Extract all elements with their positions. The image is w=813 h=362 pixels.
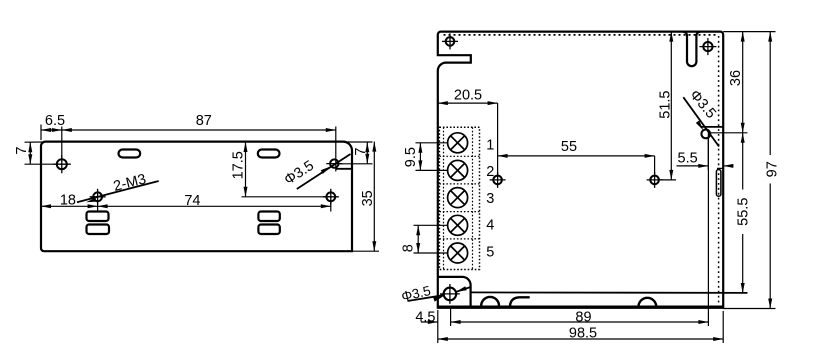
svg-text:2-M3: 2-M3 [112, 171, 148, 195]
svg-text:18: 18 [60, 193, 76, 209]
foot arc 1 [481, 297, 499, 306]
hole phi3.5 right [326, 159, 342, 167]
svg-text:55: 55 [561, 139, 577, 155]
svg-text:4.5: 4.5 [415, 310, 435, 326]
hole phi3.5 left [53, 155, 71, 173]
svg-text:Φ3.5: Φ3.5 [686, 87, 719, 122]
ear hole top-left [442, 33, 458, 49]
dim 7 right [339, 142, 373, 164]
dim 17.5 [242, 142, 331, 197]
leader phi3.5 bottom left [408, 286, 472, 301]
slot lower-right A [258, 212, 279, 222]
dim 35 [352, 142, 379, 252]
dim 36 [710, 32, 775, 133]
terminal block outer dashed [439, 127, 479, 269]
svg-text:89: 89 [575, 309, 591, 325]
side hole phi3.5 right wall [701, 130, 710, 139]
svg-text:2: 2 [486, 164, 494, 180]
svg-text:20.5: 20.5 [454, 88, 482, 104]
seam line bottom [471, 291, 748, 294]
U slot top [683, 32, 700, 67]
screw 4 [448, 215, 468, 235]
dim 51.5 [660, 32, 677, 180]
screw 3 [448, 188, 468, 208]
leader phi3.5 top right [683, 97, 719, 146]
dim 9.5 [416, 143, 448, 171]
dim 8 [414, 225, 448, 253]
dim 5.5 [677, 139, 734, 171]
dotted line right wall [718, 36, 720, 303]
bottom-left tab [438, 277, 471, 306]
screw 2 [448, 160, 468, 180]
svg-text:3: 3 [486, 191, 494, 207]
terminal block dashed separators [439, 155, 479, 157]
leader 2-M3 [77, 181, 159, 202]
foot arc 3 [639, 298, 657, 306]
svg-text:55.5: 55.5 [735, 198, 751, 226]
svg-text:51.5: 51.5 [658, 90, 674, 118]
hole M3 right [323, 189, 339, 205]
bottom edge thick [438, 306, 723, 309]
ear hole top-right [699, 38, 716, 55]
svg-text:5.5: 5.5 [678, 150, 698, 166]
foot hook 2 [510, 297, 530, 306]
dim 20.5 [438, 103, 498, 174]
body hole right [647, 172, 663, 188]
screw 1 [448, 133, 468, 153]
svg-text:74: 74 [184, 193, 200, 209]
svg-text:36: 36 [728, 70, 744, 86]
svg-text:7: 7 [14, 147, 30, 155]
wall slot right [716, 170, 721, 197]
svg-text:5: 5 [486, 245, 494, 261]
dim 55.5 [742, 133, 744, 293]
screw 5 [448, 243, 468, 263]
svg-text:17.5: 17.5 [231, 151, 247, 179]
slot lower-right B [258, 225, 279, 235]
seam step line right [336, 168, 352, 170]
dim 55 [498, 156, 655, 175]
svg-text:Φ3.5: Φ3.5 [400, 283, 432, 304]
svg-text:9.5: 9.5 [403, 147, 419, 167]
svg-text:4: 4 [486, 217, 494, 233]
slot lower-left A [87, 212, 109, 222]
slot top-left [119, 150, 141, 158]
svg-text:35: 35 [360, 190, 376, 206]
svg-text:7: 7 [353, 148, 369, 156]
svg-text:1: 1 [486, 137, 494, 153]
body hole left [490, 172, 506, 188]
svg-text:6.5: 6.5 [45, 113, 65, 129]
tab hole phi3.5 [440, 284, 460, 304]
dim 87 [62, 127, 336, 172]
svg-text:8: 8 [401, 244, 417, 252]
dim 4.5 and 89 [421, 130, 708, 326]
svg-text:Φ3.5: Φ3.5 [282, 158, 317, 189]
hole M3 left [90, 189, 106, 205]
svg-text:98.5: 98.5 [569, 326, 597, 342]
slot lower-left B [87, 225, 110, 235]
svg-text:97: 97 [764, 161, 780, 177]
svg-text:87: 87 [196, 113, 212, 129]
dim 98.5 [438, 310, 723, 343]
dim 97 [723, 32, 775, 309]
outline right view [438, 32, 723, 309]
outline left view [41, 142, 352, 252]
slot top-right [258, 150, 280, 158]
dim 7 left [25, 142, 54, 164]
terminal block inner dashed columns [443, 127, 445, 269]
dim 18 and 74 [41, 202, 331, 212]
dotted vent row below top edge [444, 34, 718, 36]
dim 6.5 [41, 125, 62, 159]
leader phi3.5 left view [297, 154, 351, 189]
seam step right side [701, 126, 723, 128]
